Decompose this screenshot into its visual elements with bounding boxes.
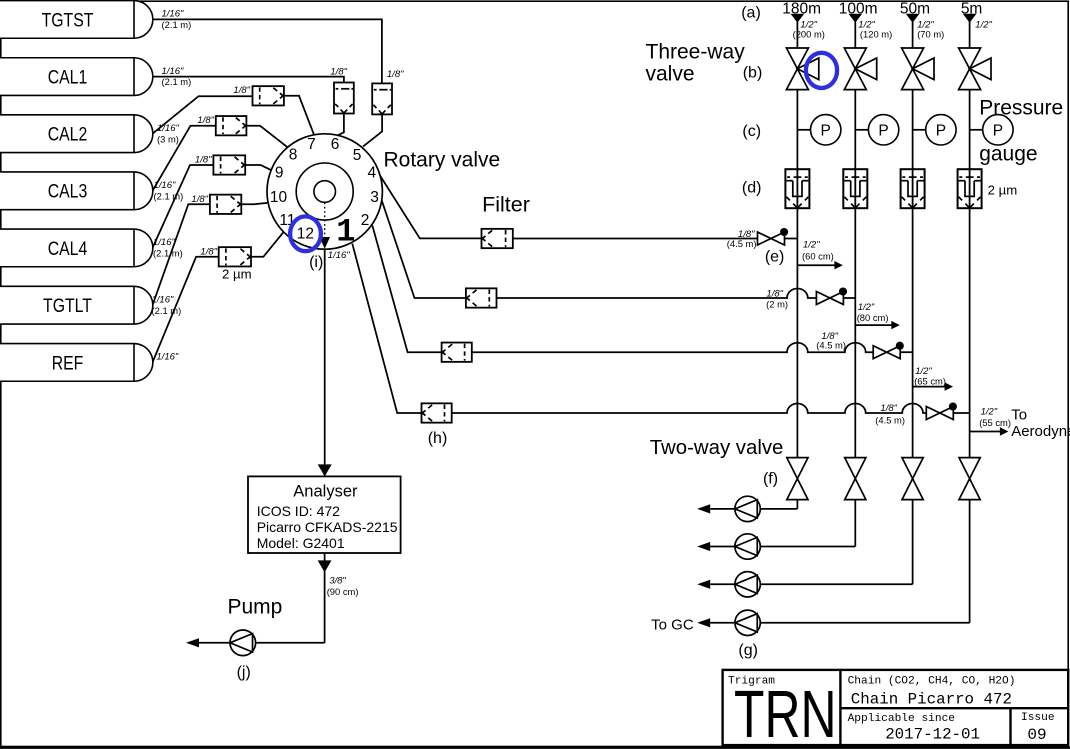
svg-text:6: 6 <box>331 136 340 153</box>
svg-text:(2.1 m): (2.1 m) <box>153 248 183 259</box>
svg-text:(4.5 m): (4.5 m) <box>875 414 905 425</box>
svg-text:CAL1: CAL1 <box>48 66 88 88</box>
svg-text:Chain (CO2, CH4, CO, H2O): Chain (CO2, CH4, CO, H2O) <box>848 676 1016 688</box>
svg-text:4: 4 <box>367 165 376 182</box>
svg-text:3/8": 3/8" <box>329 575 346 586</box>
svg-text:1/2": 1/2" <box>981 406 998 417</box>
svg-text:(c): (c) <box>742 123 761 140</box>
svg-text:1: 1 <box>336 214 355 251</box>
svg-text:5: 5 <box>353 147 362 164</box>
svg-text:REF: REF <box>52 352 84 374</box>
svg-text:(80 cm): (80 cm) <box>857 312 889 323</box>
svg-text:Pressure: Pressure <box>979 96 1063 119</box>
svg-text:(4.5 m): (4.5 m) <box>816 340 846 351</box>
svg-text:Chain Picarro 472: Chain Picarro 472 <box>851 690 1012 708</box>
svg-text:7: 7 <box>307 136 316 153</box>
svg-text:ICOS ID: 472: ICOS ID: 472 <box>257 503 340 519</box>
svg-text:1/8": 1/8" <box>387 69 404 80</box>
svg-text:Pump: Pump <box>228 596 283 619</box>
svg-text:(3 m): (3 m) <box>157 133 179 144</box>
svg-text:(f): (f) <box>763 471 778 488</box>
svg-text:2: 2 <box>361 212 370 229</box>
svg-text:(a): (a) <box>741 5 761 22</box>
svg-text:(b): (b) <box>743 65 763 82</box>
svg-text:1/8": 1/8" <box>880 403 897 414</box>
svg-text:9: 9 <box>275 165 284 182</box>
svg-text:Rotary valve: Rotary valve <box>384 149 501 172</box>
svg-text:(e): (e) <box>765 249 785 266</box>
svg-text:(j): (j) <box>237 664 251 681</box>
svg-text:1/8": 1/8" <box>233 85 250 96</box>
svg-text:Analyser: Analyser <box>293 482 358 500</box>
svg-text:1/16": 1/16" <box>156 352 178 363</box>
svg-text:CAL2: CAL2 <box>48 123 88 145</box>
svg-text:(2.1 m): (2.1 m) <box>154 190 184 201</box>
svg-text:TGTLT: TGTLT <box>43 295 92 317</box>
svg-text:(90 cm): (90 cm) <box>327 586 359 597</box>
svg-text:1/8": 1/8" <box>200 246 217 257</box>
svg-text:2 µm: 2 µm <box>988 183 1018 198</box>
svg-text:P: P <box>993 122 1003 139</box>
svg-text:(70 m): (70 m) <box>917 28 944 39</box>
svg-text:2 µm: 2 µm <box>222 267 252 282</box>
svg-text:CAL4: CAL4 <box>48 237 88 259</box>
svg-text:Filter: Filter <box>482 192 530 216</box>
svg-text:3: 3 <box>370 189 379 206</box>
svg-text:gauge: gauge <box>979 143 1037 166</box>
svg-text:(d): (d) <box>742 180 762 197</box>
svg-text:(2.1 m): (2.1 m) <box>162 76 192 87</box>
svg-text:P: P <box>878 122 888 139</box>
svg-text:(2.1 m): (2.1 m) <box>162 19 192 30</box>
svg-text:(g): (g) <box>738 642 758 659</box>
svg-text:(55 cm): (55 cm) <box>979 417 1011 428</box>
svg-text:TRN: TRN <box>734 678 836 749</box>
svg-text:(60 cm): (60 cm) <box>802 251 834 262</box>
svg-text:Two-way valve: Two-way valve <box>650 437 784 459</box>
svg-text:1/2": 1/2" <box>803 240 820 251</box>
svg-text:12: 12 <box>297 226 314 243</box>
svg-text:Model: G2401: Model: G2401 <box>257 535 345 551</box>
svg-text:Three-way: Three-way <box>646 40 746 63</box>
svg-text:1/8": 1/8" <box>197 115 214 126</box>
svg-text:1/8": 1/8" <box>195 155 212 166</box>
svg-text:Issue: Issue <box>1021 712 1055 724</box>
svg-text:P: P <box>821 122 831 139</box>
svg-text:(65 cm): (65 cm) <box>914 376 946 387</box>
svg-text:1/8": 1/8" <box>330 67 347 78</box>
svg-text:10: 10 <box>270 189 288 206</box>
svg-text:1/8": 1/8" <box>191 194 208 205</box>
svg-text:Applicable since: Applicable since <box>848 713 955 725</box>
svg-text:P: P <box>936 122 946 139</box>
svg-text:valve: valve <box>646 62 695 85</box>
svg-text:To: To <box>1011 407 1027 424</box>
svg-text:8: 8 <box>289 147 298 164</box>
svg-text:CAL3: CAL3 <box>48 180 88 202</box>
svg-text:Picarro CFKADS-2215: Picarro CFKADS-2215 <box>257 519 398 535</box>
svg-text:(h): (h) <box>428 430 448 447</box>
svg-text:(2 m): (2 m) <box>766 298 788 309</box>
svg-text:09: 09 <box>1027 726 1046 744</box>
svg-text:1/2": 1/2" <box>975 19 992 30</box>
svg-text:To GC: To GC <box>651 617 694 634</box>
svg-text:Aerodyne: Aerodyne <box>1011 423 1070 440</box>
svg-text:(2.1 m): (2.1 m) <box>152 305 182 316</box>
svg-text:1/16": 1/16" <box>328 250 350 261</box>
svg-text:(200 m): (200 m) <box>793 28 825 39</box>
svg-text:(120 m): (120 m) <box>860 28 892 39</box>
svg-text:(i): (i) <box>309 254 323 271</box>
svg-text:TGTST: TGTST <box>42 9 94 31</box>
svg-text:2017-12-01: 2017-12-01 <box>885 726 980 744</box>
svg-text:(4.5 m): (4.5 m) <box>727 238 757 249</box>
